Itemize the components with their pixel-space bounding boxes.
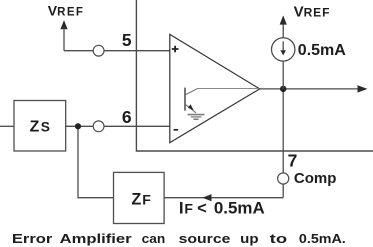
svg-text:up: up — [240, 231, 258, 246]
svg-text:to: to — [270, 231, 287, 246]
svg-text:source: source — [179, 231, 231, 246]
svg-text:0.5mA: 0.5mA — [298, 42, 346, 59]
svg-text:5: 5 — [122, 30, 132, 50]
svg-text:Comp: Comp — [294, 170, 337, 187]
svg-text:VREF: VREF — [294, 4, 331, 21]
svg-text:ZF: ZF — [131, 191, 151, 209]
svg-text:0.5mA.: 0.5mA. — [299, 231, 346, 246]
svg-text:6: 6 — [122, 107, 132, 127]
svg-text:IF<0.5mA: IF<0.5mA — [179, 199, 265, 218]
svg-text:Error: Error — [12, 231, 52, 246]
svg-text:Amplifier: Amplifier — [60, 231, 132, 246]
svg-text:7: 7 — [288, 151, 298, 171]
svg-text:can: can — [142, 231, 166, 246]
